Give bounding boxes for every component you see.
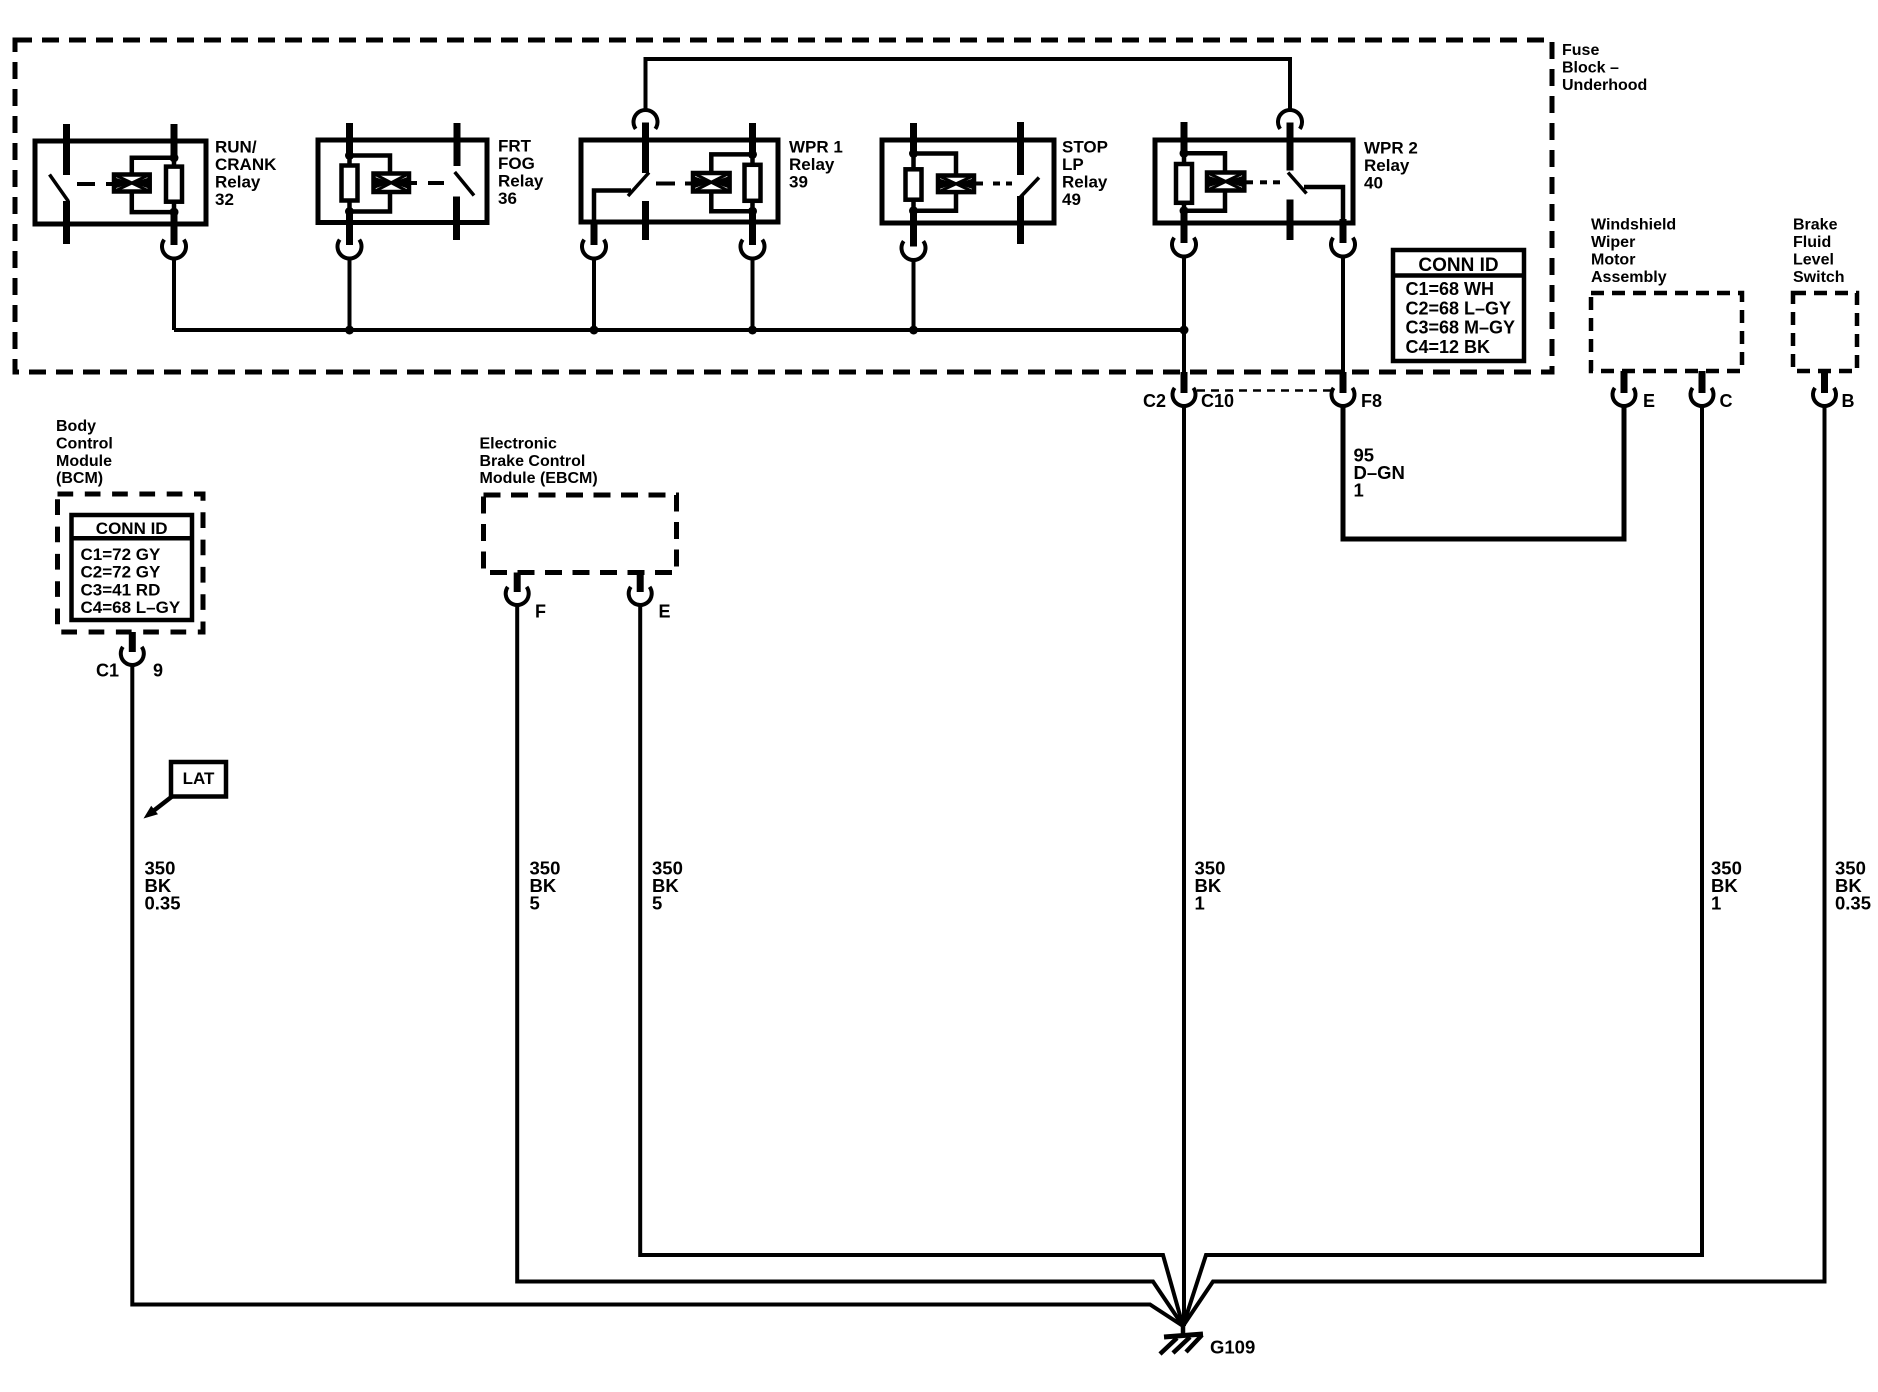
svg-text:32: 32 [215, 190, 234, 209]
relay 36 coil parallel loop top [350, 156, 391, 174]
relay 40 resistor [1176, 164, 1192, 203]
svg-text:C10: C10 [1201, 391, 1234, 411]
svg-text:Relay: Relay [215, 172, 261, 191]
relay 39 resistor leads [750, 154, 755, 164]
EBCM pin F stub [514, 573, 521, 593]
relay 39 switch blade [628, 173, 649, 197]
svg-text:Wiper: Wiper [1591, 234, 1635, 251]
relay 39 coil [693, 173, 730, 192]
svg-text:C3=68 M–GY: C3=68 M–GY [1406, 318, 1516, 338]
relay 49 coil lead [974, 182, 983, 186]
relay 36 left pin bottom [346, 212, 353, 246]
relay 49 bottom connector [902, 241, 926, 260]
svg-text:CRANK: CRANK [215, 155, 277, 174]
connector F8 pin stub [1340, 372, 1347, 393]
svg-text:FOG: FOG [498, 154, 535, 173]
svg-text:40: 40 [1364, 173, 1383, 192]
relay 39 left bottom connector [582, 240, 606, 259]
svg-text:49: 49 [1062, 190, 1081, 209]
relay 39 box (WPR 1) [581, 140, 778, 222]
svg-text:F8: F8 [1361, 391, 1382, 411]
svg-text:C2=72 GY: C2=72 GY [81, 563, 162, 582]
svg-text:WPR 1: WPR 1 [789, 137, 843, 156]
relay 32 coil link (dashed) [77, 182, 95, 186]
svg-text:Relay: Relay [1062, 172, 1108, 191]
junction relay 39 right / ground bus [748, 326, 757, 335]
relay 40 left bottom connector [1172, 238, 1196, 257]
wire from WPR1 relay top connector to WPR2 relay top connector [646, 59, 1291, 110]
wire from EBCM F to ground [517, 605, 1183, 1326]
wire from EBCM E to ground [640, 605, 1183, 1326]
relay 32 coil parallel loop top [132, 158, 174, 175]
relay 32 switch blade [50, 175, 69, 202]
relay 39 switch pin bottom stub [642, 201, 649, 240]
relay 39 switch pin top [642, 123, 649, 174]
relay 40 right pin bottom [1340, 219, 1347, 243]
relay 36 coil parallel loop bottom [350, 192, 391, 212]
relay 39 node bottom junction [748, 207, 757, 216]
svg-text:Relay: Relay [1364, 156, 1410, 175]
fuse block CONN ID table title rule [1393, 273, 1524, 278]
relay 49 box (STOP LP) [882, 140, 1054, 223]
EBCM connector F arc [506, 587, 529, 605]
relay 36 node top junction [345, 151, 354, 160]
relay 40 switch pin bottom stub [1287, 200, 1294, 241]
svg-text:STOP: STOP [1062, 137, 1108, 156]
svg-text:LP: LP [1062, 155, 1084, 174]
wire relay 49 to ground bus [912, 260, 916, 330]
relay 49 left pin bottom [910, 211, 917, 247]
BCM box (dashed) [58, 494, 204, 632]
relay 36 switch pin bottom stub [453, 197, 460, 241]
fuse block underhood boundary (dashed) [15, 40, 1552, 372]
BCM pin stub [129, 632, 136, 652]
relay 32 node bottom junction [170, 208, 179, 217]
wire from wiper C to ground [1183, 406, 1702, 1326]
svg-text:Brake Control: Brake Control [480, 453, 586, 470]
wire from brake fluid B to ground [1183, 406, 1825, 1326]
svg-text:39: 39 [789, 172, 808, 191]
svg-text:Relay: Relay [789, 155, 835, 174]
svg-text:Fluid: Fluid [1793, 234, 1831, 251]
svg-text:Control: Control [56, 436, 113, 453]
svg-text:Underhood: Underhood [1562, 77, 1647, 94]
relay 49 switch pin bottom stub [1017, 196, 1024, 244]
wiper motor connector C arc [1690, 388, 1713, 406]
svg-text:Relay: Relay [498, 171, 544, 190]
wiper motor pin E stub [1621, 371, 1628, 393]
svg-text:9: 9 [153, 661, 163, 681]
relay 32 node top junction [170, 153, 179, 162]
svg-text:G109: G109 [1210, 1337, 1255, 1358]
svg-text:C2=68 L–GY: C2=68 L–GY [1406, 298, 1512, 318]
svg-text:C1=72 GY: C1=72 GY [81, 545, 162, 564]
connector C10 pin stub [1181, 372, 1188, 393]
connector dashed tie C10-F8 [1197, 389, 1331, 392]
relay 40 box (WPR 2) [1155, 140, 1353, 223]
svg-text:Switch: Switch [1793, 269, 1845, 286]
svg-text:C3=41 RD: C3=41 RD [81, 580, 161, 599]
svg-text:36: 36 [498, 189, 517, 208]
relay 32 coil [114, 175, 150, 192]
relay 39 switch wire to left pin [594, 191, 631, 229]
EBCM connector E arc [629, 587, 652, 605]
LAT arrow shaft [152, 797, 172, 813]
relay 32 coil pin top [171, 124, 178, 159]
junction relay 49 / ground bus [909, 326, 918, 335]
relay 36 coil [374, 174, 410, 193]
svg-text:B: B [1842, 391, 1855, 411]
relay 40 coil lead [1244, 180, 1253, 184]
relay 40 switch pin top [1287, 123, 1294, 171]
svg-text:0.35: 0.35 [1835, 893, 1871, 914]
brake fluid switch pin B stub [1821, 371, 1828, 393]
BCM CONN ID table box [72, 515, 193, 620]
relay 36 switch blade [455, 172, 474, 196]
relay 36 box (FRT FOG) [318, 140, 487, 223]
relay 40 switch blade [1288, 173, 1307, 194]
relay 40 top connector [1278, 110, 1302, 129]
relay 39 top connector [634, 110, 658, 129]
svg-text:Windshield: Windshield [1591, 217, 1676, 234]
svg-text:Fuse: Fuse [1562, 42, 1599, 59]
relay 49 coil parallel loop top [914, 154, 957, 176]
svg-text:Electronic: Electronic [480, 435, 557, 452]
relay 36 switch pin top [454, 123, 461, 166]
brake fluid level switch box (dashed) [1793, 293, 1857, 371]
brake fluid connector B arc [1813, 388, 1836, 406]
relay 49 node top junction [909, 149, 918, 158]
relay 49 coil [938, 176, 974, 193]
relay 32 bottom connector [162, 240, 186, 259]
relay 32 switch pin bottom stub [63, 201, 70, 244]
relay 40 node top junction [1180, 149, 1189, 158]
svg-text:F: F [535, 602, 546, 622]
svg-text:C: C [1720, 391, 1733, 411]
svg-text:Assembly: Assembly [1591, 269, 1667, 286]
wiper motor connector E arc [1613, 388, 1636, 406]
wiper motor pin C stub [1699, 371, 1706, 393]
svg-text:CONN ID: CONN ID [1418, 255, 1498, 276]
svg-text:LAT: LAT [183, 769, 215, 788]
svg-text:5: 5 [652, 893, 662, 914]
relay 39 coil pin top [749, 123, 756, 156]
relay 36 bottom connector [338, 240, 362, 259]
junction relay 39 left / ground bus [590, 326, 599, 335]
relay 36 left pin top [346, 123, 353, 157]
relay 32 resistor leads [172, 158, 177, 167]
svg-text:RUN/: RUN/ [215, 137, 257, 156]
ground bus wire inside fuse block [174, 328, 1185, 332]
relay 40 right bottom connector [1331, 238, 1355, 257]
junction relay 40 / ground bus [1180, 326, 1189, 335]
relay 49 switch pin top [1017, 122, 1024, 175]
LAT arrowhead [144, 806, 159, 819]
relay 36 resistor [342, 166, 358, 201]
relay 40 resistor leads [1182, 153, 1187, 164]
svg-text:E: E [659, 602, 671, 622]
relay 32 coil pin bottom [171, 212, 178, 245]
svg-text:Level: Level [1793, 252, 1834, 269]
svg-text:Module: Module [56, 453, 112, 470]
EBCM pin E stub [637, 573, 644, 593]
relay 32 box (RUN/CRANK) [35, 141, 206, 224]
relay 39 coil link (dashed) [656, 182, 675, 186]
relay 49 coil link (dashed) [993, 182, 1000, 186]
svg-text:1: 1 [1711, 893, 1721, 914]
relay 49 resistor [906, 169, 922, 199]
relay 49 resistor leads [911, 154, 916, 170]
svg-text:5: 5 [530, 893, 540, 914]
EBCM box (dashed) [484, 495, 677, 573]
relay 36 coil lead [409, 181, 417, 185]
svg-text:Motor: Motor [1591, 252, 1635, 269]
wire C10 down to ground G109 [1182, 406, 1186, 1326]
BCM CONN ID table title rule [72, 536, 193, 541]
svg-text:FRT: FRT [498, 136, 532, 155]
svg-text:1: 1 [1354, 480, 1364, 501]
fuse block CONN ID table box [1393, 250, 1524, 361]
relay 32 coil parallel loop bottom [132, 192, 174, 213]
relay 39 resistor [745, 165, 761, 201]
wire 95 D-GN from F8 to wiper motor E [1343, 406, 1624, 539]
svg-text:C1: C1 [96, 661, 119, 681]
relay 40 node bottom junction [1180, 206, 1189, 215]
junction relay 36 / ground bus [345, 326, 354, 335]
relay 40 switch wire to right pin [1304, 187, 1343, 224]
svg-text:0.35: 0.35 [145, 893, 181, 914]
relay 40 coil parallel loop bottom [1184, 191, 1225, 211]
relay 40 coil [1207, 173, 1244, 191]
relay 39 left pin bottom [591, 222, 598, 245]
svg-text:Brake: Brake [1793, 217, 1838, 234]
relay 36 resistor leads [347, 156, 352, 166]
svg-text:1: 1 [1195, 893, 1205, 914]
wire from BCM pin 9 to ground [132, 665, 1183, 1326]
svg-text:CONN ID: CONN ID [96, 519, 168, 538]
wire relay 40 left pin down to C10 connector [1182, 257, 1186, 374]
relay 49 coil parallel loop bottom [914, 192, 957, 211]
svg-text:E: E [1643, 391, 1655, 411]
wire relay 36 to ground bus [348, 259, 352, 331]
wire relay 39 left pin to ground bus [592, 259, 596, 331]
svg-text:C4=68 L–GY: C4=68 L–GY [81, 598, 181, 617]
svg-text:(BCM): (BCM) [56, 470, 103, 487]
relay 32 switch pin top [63, 124, 70, 175]
BCM connector C1 arc [121, 647, 144, 665]
svg-text:WPR 2: WPR 2 [1364, 138, 1418, 157]
relay 40 coil link (dashed) [1260, 180, 1267, 184]
ground symbol G109 [1181, 1326, 1186, 1336]
relay 39 coil parallel loop bottom [711, 192, 752, 212]
svg-text:C2: C2 [1143, 391, 1166, 411]
connector C2/C10 arc [1173, 388, 1196, 406]
svg-text:C1=68 WH: C1=68 WH [1406, 279, 1495, 299]
svg-text:C4=12 BK: C4=12 BK [1406, 337, 1491, 357]
connector F8 arc [1331, 388, 1354, 406]
relay 49 switch blade [1021, 178, 1040, 198]
wire relay 32 to ground bus [172, 259, 176, 331]
relay 40 left pin bottom [1181, 211, 1188, 243]
svg-text:Block –: Block – [1562, 60, 1619, 77]
windshield wiper motor assembly box (dashed) [1591, 293, 1742, 371]
wire relay 40 right pin down to F8 connector [1341, 257, 1345, 374]
relay 39 node top junction [748, 150, 757, 159]
relay 32 resistor [166, 167, 182, 202]
relay 39 coil pin bottom [749, 211, 756, 245]
wire relay 39 right pin to ground bus [751, 259, 755, 331]
relay 36 coil link (dashed) [428, 181, 444, 185]
relay 49 node bottom junction [909, 206, 918, 215]
svg-text:Body: Body [56, 418, 96, 435]
relay 36 node bottom junction [345, 207, 354, 216]
relay 39 coil parallel loop top [711, 154, 752, 173]
relay 40 coil parallel loop top [1184, 153, 1225, 172]
relay 40 left pin top [1181, 122, 1188, 155]
relay 49 left pin top [910, 123, 917, 155]
LAT tag box [171, 762, 226, 797]
relay 39 right bottom connector [741, 240, 765, 259]
svg-text:Module (EBCM): Module (EBCM) [480, 470, 598, 487]
